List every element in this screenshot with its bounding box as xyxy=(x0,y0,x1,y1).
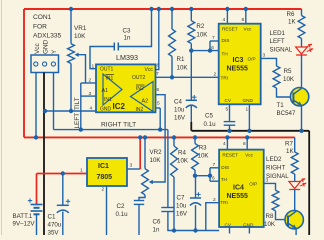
junction R3 bottom / C7 branch xyxy=(193,174,197,178)
wire: R7 to LED2 xyxy=(294,174,296,182)
wire: DIS-TH node to IC3 pin6 TH xyxy=(191,50,218,52)
wire: VR1 bottom to GND line xyxy=(70,64,72,112)
junction Y line / pin5 riser xyxy=(158,127,162,131)
svg-text:RIGHT: RIGHT xyxy=(266,165,285,172)
wire: VR2 bottom to C2 xyxy=(139,195,145,201)
label IC3 NE555 xyxy=(227,57,249,73)
wire: IC2 pin6 to VR2 wiper xyxy=(149,95,165,185)
svg-text:7: 7 xyxy=(156,71,159,77)
wire: IC1 output stub xyxy=(127,168,140,170)
svg-text:RESET: RESET xyxy=(222,153,238,158)
wire: rail corner to R6 xyxy=(301,9,303,16)
svg-text:RIGHT TILT: RIGHT TILT xyxy=(101,122,136,129)
wire: IC4 DIS-TH bracket xyxy=(210,168,219,181)
svg-text:IC4: IC4 xyxy=(233,185,244,192)
capacitor C4 (electrolytic) xyxy=(186,95,197,108)
junction R2 / C4 / bracket xyxy=(189,48,193,52)
svg-text:CON1: CON1 xyxy=(33,14,52,21)
junction IC3 pin8 / rail xyxy=(244,7,248,11)
wire: IC2 pin1 OUT1 up to C3 xyxy=(90,47,114,69)
wire: LED1 to T1 collector xyxy=(301,55,303,88)
svg-text:1K: 1K xyxy=(286,148,294,155)
svg-text:IC1: IC1 xyxy=(98,163,109,170)
wire: battery negative down xyxy=(36,214,38,235)
op-amp A1 triangle xyxy=(102,74,123,105)
wire: C5 to ground bus xyxy=(229,125,231,131)
label R4 10K xyxy=(177,150,189,165)
svg-text:DIS: DIS xyxy=(221,165,229,170)
svg-text:2: 2 xyxy=(102,187,105,193)
svg-text:IN1: IN1 xyxy=(104,97,112,103)
svg-text:3: 3 xyxy=(263,53,266,59)
svg-text:10K: 10K xyxy=(283,76,295,83)
svg-text:10K: 10K xyxy=(177,65,189,72)
wire: IC4 CV pin5 stub xyxy=(229,227,231,234)
svg-text:Vcc: Vcc xyxy=(245,153,253,158)
label IC2 pin numbers xyxy=(89,63,161,112)
svg-text:2: 2 xyxy=(214,72,217,78)
junction C1 / input rail xyxy=(61,171,65,175)
wire: C1 top to input rail xyxy=(62,174,64,206)
transistor T1 BC547 xyxy=(290,88,308,106)
svg-text:3: 3 xyxy=(130,163,133,169)
capacitor C2 xyxy=(134,201,144,205)
label IC1 pin numbers xyxy=(80,163,133,193)
label R3 10K xyxy=(198,145,210,160)
capacitor C6 xyxy=(161,208,174,212)
wire: IC3 RESET pin4 to rail xyxy=(226,9,228,24)
svg-text:5: 5 xyxy=(226,107,229,113)
label IC3 pin numbers bottom xyxy=(226,107,249,113)
svg-text:IC3: IC3 xyxy=(233,57,244,64)
label R2 10K xyxy=(196,23,208,39)
label R8 10K xyxy=(264,213,276,228)
capacitor C1 (electrolytic) xyxy=(57,199,70,213)
svg-text:GND: GND xyxy=(42,39,49,54)
label VR1 10K xyxy=(74,25,87,40)
wire: R6 to LED1 xyxy=(301,39,303,48)
svg-text:4: 4 xyxy=(90,106,93,112)
resistor R5 xyxy=(273,66,280,88)
label IC3 pin names xyxy=(221,27,256,104)
wire: C7 top from junction xyxy=(195,176,197,198)
wire: R4 top to +5V bus xyxy=(173,137,175,146)
wire: R4 bottom to bottom bus xyxy=(173,177,175,231)
svg-text:R4: R4 xyxy=(178,150,186,157)
svg-text:DIS: DIS xyxy=(222,38,230,43)
svg-text:7805: 7805 xyxy=(97,174,113,181)
wire: IC4 output pin3 to R8 xyxy=(264,178,276,191)
svg-text:6: 6 xyxy=(212,176,215,182)
label VR2 10K xyxy=(150,149,163,164)
wire: IC2 pin8 Vcc to rail xyxy=(156,9,159,70)
junction VR1 / +5V rail xyxy=(69,7,73,11)
svg-text:RESET: RESET xyxy=(222,27,238,32)
svg-text:5: 5 xyxy=(157,101,160,107)
svg-text:A1: A1 xyxy=(102,88,109,94)
svg-text:LEFT: LEFT xyxy=(74,113,81,129)
wire: Y line to C6 xyxy=(167,130,169,208)
regulator IC1 7805 body xyxy=(87,158,127,186)
junction VR2 / +5V bus xyxy=(143,135,147,139)
wire: IC4 GND pin1 stub xyxy=(248,227,250,234)
label C1 470u 35V xyxy=(48,214,62,237)
label R7 1K xyxy=(285,141,294,156)
wire: C4 bottom to ground bus xyxy=(190,106,192,131)
junction IC4 pin4 / +5V bus xyxy=(225,135,229,139)
svg-text:6: 6 xyxy=(157,87,160,93)
junction bracket corner xyxy=(208,48,212,52)
svg-text:C2: C2 xyxy=(117,203,125,210)
wire: +5V bus end to R7 xyxy=(294,137,296,152)
wire: VR1 top to +5V rail xyxy=(70,9,72,44)
wire: R1 top to rail xyxy=(171,9,173,29)
svg-text:2: 2 xyxy=(89,78,92,84)
svg-text:Vcc: Vcc xyxy=(244,27,252,32)
wire: C2 bottom down xyxy=(138,204,140,235)
svg-text:O/P: O/P xyxy=(248,57,256,62)
label C2 0.1u xyxy=(116,203,129,218)
svg-text:8: 8 xyxy=(242,17,245,23)
junction R3 / +5V bus xyxy=(193,135,197,139)
junction R4 / +5V bus xyxy=(172,135,176,139)
svg-text:NE555: NE555 xyxy=(227,66,249,73)
junction R1 / trigger line xyxy=(170,75,174,79)
label IC2 xyxy=(113,102,126,111)
battery BATT.1 xyxy=(28,198,43,214)
svg-text:LED1: LED1 xyxy=(270,30,286,37)
junction CON1 Vcc / +5V bus xyxy=(34,135,38,139)
svg-text:1: 1 xyxy=(80,168,83,174)
svg-text:1n: 1n xyxy=(124,35,131,42)
transistor T2 BC547 xyxy=(285,211,303,229)
label R1 10K xyxy=(177,56,189,72)
resistor R1 xyxy=(169,29,176,56)
svg-text:C6: C6 xyxy=(153,219,161,226)
wire: R8 to T2 base xyxy=(276,211,289,220)
resistor R7 xyxy=(291,152,298,174)
label RIGHT TILT xyxy=(101,122,136,129)
svg-text:2: 2 xyxy=(213,197,216,203)
wire: T2 emitter down xyxy=(295,228,297,235)
svg-text:Y: Y xyxy=(51,49,58,54)
wire: IC3 CV pin5 to C5 xyxy=(229,104,231,121)
svg-text:10K: 10K xyxy=(196,32,208,39)
svg-text:Vcc: Vcc xyxy=(34,43,41,54)
svg-text:10K: 10K xyxy=(150,157,162,164)
label LM393 xyxy=(116,53,138,62)
svg-text:4: 4 xyxy=(223,141,226,147)
wire: IC3 output pin3 to R5 xyxy=(261,53,277,67)
timer IC4 NE555 body xyxy=(219,150,264,227)
svg-text:FOR: FOR xyxy=(33,24,47,31)
label IC4 pin names xyxy=(220,153,257,228)
svg-text:LEFT: LEFT xyxy=(270,38,285,45)
wire: R2 top to rail xyxy=(190,9,192,21)
svg-text:TRI: TRI xyxy=(221,76,229,81)
wire: +5V left border (red) xyxy=(23,9,25,137)
svg-text:OUT1: OUT1 xyxy=(100,67,114,73)
wire: R5 to T1 base xyxy=(277,88,294,97)
svg-text:CV: CV xyxy=(225,223,232,228)
wire: C1 bottom down xyxy=(62,212,64,236)
wire: +5V horizontal bus (red) xyxy=(24,136,295,138)
svg-text:6: 6 xyxy=(211,45,214,51)
wire: R3 bottom to DIS/TH node xyxy=(195,170,210,176)
connector CON1 label xyxy=(33,14,62,40)
junction IC1 output / +5V bus xyxy=(138,135,142,139)
svg-text:10K: 10K xyxy=(264,221,276,228)
svg-text:CV: CV xyxy=(225,98,232,103)
wire: Y line riser to IC2 pin5 xyxy=(159,108,161,130)
wire: T1 emitter to ground bus xyxy=(301,105,303,131)
node LEFT TILT label xyxy=(74,97,81,128)
junction IC2 Vcc / +5V rail xyxy=(157,7,161,11)
label IC2 pin names xyxy=(100,67,153,113)
label C3 1n xyxy=(123,28,131,42)
svg-text:IN2: IN2 xyxy=(136,86,144,92)
junction IC3 GND / ground bus xyxy=(247,129,251,133)
svg-text:470u: 470u xyxy=(48,222,62,229)
svg-text:ADXL335: ADXL335 xyxy=(33,33,62,40)
junction C5 / ground bus xyxy=(227,129,231,133)
svg-text:1n: 1n xyxy=(153,227,160,234)
wire: IC4 Vcc pin8 to +5V bus xyxy=(246,137,248,149)
wire: IC4 RESET pin4 to +5V bus xyxy=(226,137,228,149)
svg-text:16V: 16V xyxy=(174,115,186,122)
svg-text:GND: GND xyxy=(243,98,254,103)
junction VR1 bottom / IC2 pin4 line xyxy=(69,109,73,113)
svg-text:R5: R5 xyxy=(284,68,292,75)
svg-text:IC2: IC2 xyxy=(113,102,126,111)
svg-text:C3: C3 xyxy=(123,28,131,35)
label IC4 pin numbers left xyxy=(212,162,216,203)
svg-text:R8: R8 xyxy=(266,213,274,220)
svg-text:SIGNAL: SIGNAL xyxy=(266,173,289,180)
svg-text:BC547: BC547 xyxy=(277,110,296,117)
svg-text:GND: GND xyxy=(100,106,112,112)
wire: CON1 GND (black) to bottom xyxy=(43,73,45,236)
wire: C3 to +5V rail xyxy=(118,9,151,47)
label C7 10u 16V xyxy=(176,195,188,218)
wire: +5V top rail (red) xyxy=(24,8,302,10)
wire: R2 bottom to DIS/TH node xyxy=(190,44,192,51)
junction C7 / bottom bus xyxy=(193,228,197,232)
svg-text:GND: GND xyxy=(243,223,254,228)
wire: LED2 to T2 collector xyxy=(294,190,296,212)
svg-text:C1: C1 xyxy=(48,214,56,221)
wire: battery positive to IC1 (red) xyxy=(37,174,88,205)
wire: ground right border (black) xyxy=(308,131,310,235)
wire: Y signal horizontal xyxy=(54,129,168,131)
svg-text:TILT: TILT xyxy=(74,97,81,110)
svg-text:BATT.1: BATT.1 xyxy=(13,213,33,220)
svg-text:4: 4 xyxy=(223,17,226,23)
wire: IC3 Vcc pin8 to rail xyxy=(245,9,247,24)
junction GND wire / pin4 line xyxy=(43,109,47,113)
svg-text:A2: A2 xyxy=(142,99,149,105)
connector CON1 body xyxy=(31,55,59,73)
resistor R8 xyxy=(272,190,279,210)
label C6 1n xyxy=(153,219,161,234)
junction IC3 pin4 / rail xyxy=(225,7,229,11)
svg-text:O/P: O/P xyxy=(249,182,257,187)
label T1 BC547 xyxy=(277,102,296,117)
svg-text:VR1: VR1 xyxy=(74,25,87,32)
wire: IC1 output to +5V bus (red) xyxy=(139,137,141,169)
wire: R1 bottom to trigger line xyxy=(171,56,173,77)
svg-text:TH: TH xyxy=(221,177,227,182)
wire: IC1 GND pin2 down xyxy=(106,186,108,235)
junction R2 / rail xyxy=(189,7,193,11)
label R6 1K xyxy=(287,11,297,26)
svg-text:16V: 16V xyxy=(176,211,188,218)
svg-text:1: 1 xyxy=(246,107,249,113)
svg-text:10u: 10u xyxy=(176,203,187,210)
wire: IC2 pin7 OUT2 to IC3 trigger xyxy=(156,76,219,78)
wire: IC2 pin5 stub xyxy=(156,107,161,109)
junction R1 / rail xyxy=(170,7,174,11)
potentiometer VR1 xyxy=(68,44,86,83)
svg-text:0.1u: 0.1u xyxy=(116,211,129,218)
LED LED1 xyxy=(296,44,313,55)
svg-text:C4: C4 xyxy=(174,99,182,106)
wire: IC3 GND pin1 to ground bus xyxy=(248,104,250,131)
junction Y line / feed wire xyxy=(79,127,83,131)
capacitor C5 xyxy=(224,122,236,126)
svg-text:10K: 10K xyxy=(198,153,210,160)
svg-text:IN1: IN1 xyxy=(106,76,114,82)
label IC4 NE555 xyxy=(227,185,249,201)
wire: VR1 wiper feed to IC2 pins 2,3 xyxy=(81,83,96,130)
svg-text:LM393: LM393 xyxy=(116,53,138,62)
junction IC4 bracket xyxy=(208,174,212,178)
svg-text:7: 7 xyxy=(212,35,215,41)
svg-text:10K: 10K xyxy=(177,158,189,165)
junction C3 riser / +5V rail xyxy=(149,7,153,11)
op-amp A2 triangle xyxy=(131,82,154,112)
label BATT.1 9V-12V xyxy=(13,213,36,228)
svg-text:TRI: TRI xyxy=(220,200,228,205)
resistor R2 xyxy=(188,21,195,44)
svg-text:C7: C7 xyxy=(177,195,185,202)
svg-text:35V: 35V xyxy=(48,230,60,236)
svg-text:C5: C5 xyxy=(205,113,213,120)
label C4 10u 16V xyxy=(174,99,186,122)
svg-text:OUT2: OUT2 xyxy=(132,75,146,81)
svg-text:1K: 1K xyxy=(288,19,296,26)
wire: CON1 Y output down xyxy=(53,73,55,130)
wire: IC4 TRI pin2 to pull-up bus xyxy=(206,203,219,231)
label IC3 pin numbers left xyxy=(211,35,216,78)
op-amp IC2 LM393 body xyxy=(96,64,156,112)
svg-text:R3: R3 xyxy=(199,145,207,152)
resistor R4 xyxy=(171,146,178,177)
svg-text:LED2: LED2 xyxy=(266,156,282,163)
svg-text:NE555: NE555 xyxy=(227,193,249,200)
wire: R3 top to +5V bus xyxy=(194,137,196,143)
connector CON1 pin labels Vcc GND Y xyxy=(34,39,58,54)
svg-text:10u: 10u xyxy=(174,107,185,114)
svg-text:3: 3 xyxy=(89,91,92,97)
svg-text:VR2: VR2 xyxy=(150,149,163,156)
wire: C4 top from DIS/TH node xyxy=(190,51,192,101)
wire: C7 bottom to bottom bus xyxy=(195,205,197,230)
potentiometer VR2 xyxy=(142,169,149,195)
svg-text:R7: R7 xyxy=(285,141,293,148)
wire: IC3 DIS bracket xyxy=(210,41,219,51)
label IC3 pin numbers 4 8 xyxy=(223,17,245,23)
wire: IC2 pin4 GND line xyxy=(45,110,96,112)
junction T1 emitter / ground bus xyxy=(299,129,303,133)
LED LED2 xyxy=(289,179,306,190)
label IC4 pin numbers 4 8 xyxy=(223,141,246,147)
junction IC4 pin8 / +5V bus xyxy=(245,135,249,139)
label IC1 7805 xyxy=(97,163,113,181)
svg-text:SIGNAL: SIGNAL xyxy=(270,47,293,54)
svg-text:R6: R6 xyxy=(287,11,295,18)
svg-text:R2: R2 xyxy=(196,23,204,30)
timer IC3 NE555 body xyxy=(219,24,261,105)
capacitor C7 (electrolytic) xyxy=(190,192,201,205)
resistor R6 xyxy=(298,16,305,39)
label C5 0.1u xyxy=(204,113,217,129)
wire: CON1 Vcc to +5V bus xyxy=(35,73,37,138)
resistor R3 xyxy=(192,144,199,171)
label LED1 LEFT SIGNAL xyxy=(270,30,293,54)
wire: C6 bottom to bottom bus xyxy=(168,212,219,231)
svg-text:7: 7 xyxy=(213,162,216,168)
svg-text:TH: TH xyxy=(222,52,228,57)
label LED2 RIGHT SIGNAL xyxy=(266,156,289,180)
capacitor C3 xyxy=(114,43,118,51)
junction R4 / bottom bus xyxy=(172,228,176,232)
svg-text:IN2: IN2 xyxy=(136,107,144,113)
label R5 10K xyxy=(283,68,295,83)
svg-text:10K: 10K xyxy=(74,33,86,40)
svg-text:R1: R1 xyxy=(177,56,185,63)
svg-text:T1: T1 xyxy=(277,102,285,109)
wire: VR2 top to +5V bus xyxy=(144,137,146,168)
svg-text:0.1u: 0.1u xyxy=(204,121,217,128)
svg-text:9V–12V: 9V–12V xyxy=(13,221,36,228)
wire: ground bus (black) xyxy=(192,130,310,132)
svg-text:8: 8 xyxy=(243,141,246,147)
svg-text:Vcc: Vcc xyxy=(145,67,154,73)
